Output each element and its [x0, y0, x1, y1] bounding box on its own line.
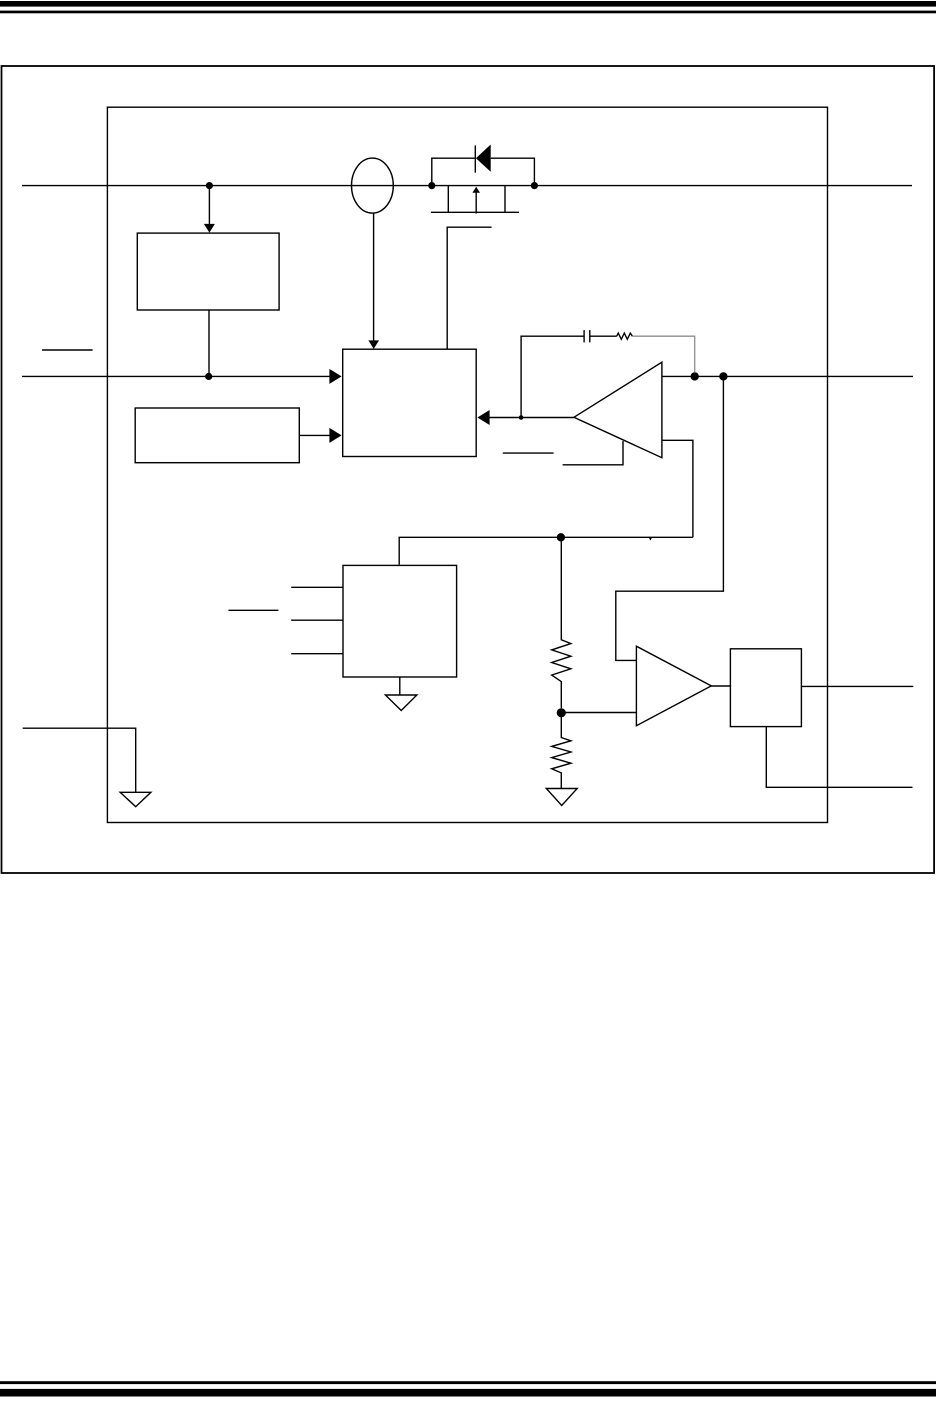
node FB junction 1 — [691, 372, 699, 380]
wire output pin 2 — [766, 727, 912, 788]
wire VIN bus — [22, 185, 912, 187]
label overbar 1 — [42, 349, 93, 351]
node VIN junction at UVLO tap — [206, 182, 213, 189]
node D1 cathode — [531, 182, 538, 189]
wire Q1 gate to PWM block — [447, 227, 491, 349]
label overbar 2 — [503, 452, 554, 454]
block B2 — [135, 408, 299, 463]
resistor R1 — [552, 537, 571, 708]
block B3 — [343, 565, 457, 677]
node divider top junction — [557, 533, 565, 541]
wire current source to PWM block — [373, 213, 375, 341]
wire block B2 into PWM block — [299, 434, 330, 436]
node FB junction 2 — [719, 372, 727, 380]
wire EN bus into PWM block — [22, 375, 330, 377]
wire block B1 to EN bus — [208, 310, 210, 376]
wire left ground pin — [23, 728, 136, 792]
wire R3 to FB node — [632, 336, 694, 372]
page top thick rule — [0, 1, 936, 7]
page bottom thick rule — [0, 1389, 936, 1397]
node divider mid junction — [557, 708, 566, 717]
wire stub tick on divider top line — [649, 538, 652, 541]
IC boundary inner rectangle — [107, 107, 827, 822]
wire FB to comparator input — [616, 376, 724, 660]
resistor R2 — [552, 713, 571, 789]
ground GND2 under R2 — [546, 789, 577, 806]
ground GND1 under B3 — [399, 677, 401, 695]
page top thin rule — [0, 11, 936, 14]
label overbar 3 — [228, 609, 278, 611]
page bottom thin rule — [0, 1381, 936, 1384]
pin stub B3 input 1 — [291, 586, 343, 588]
transistor Q1 gate plate — [431, 211, 519, 213]
block PWM U3 — [343, 349, 477, 456]
wire C1 to R3 — [590, 335, 617, 337]
figure outer border — [2, 66, 935, 873]
transistor Q1 drain stub — [504, 186, 506, 213]
wire FB line — [662, 375, 913, 377]
node EN junction — [205, 373, 212, 380]
wire output pin 1 — [801, 685, 913, 687]
wire U1 output into PWM block — [489, 417, 574, 419]
capacitor C1 — [583, 330, 585, 342]
current source CS1 ellipse — [352, 158, 394, 213]
diode D1 bar — [474, 145, 476, 172]
resistor R3 — [617, 333, 633, 339]
wire compensation riser — [521, 336, 583, 417]
block B4 driver — [730, 649, 801, 727]
diode D1 triangle — [476, 145, 491, 172]
ground GND3 — [120, 792, 151, 806]
wire U1 right edge to lower node — [662, 440, 693, 537]
wire diode left riser — [432, 158, 475, 185]
transistor Q1 source stub — [447, 186, 449, 213]
op-amp U1 error amplifier — [574, 362, 662, 458]
wire U2 output to driver — [711, 685, 730, 687]
pin stub B3 input 2 — [291, 619, 343, 621]
wire divider top node — [399, 537, 693, 564]
block B1 — [137, 233, 279, 310]
pin stub B3 input 3 — [291, 653, 343, 655]
node U1 output tap — [519, 415, 524, 420]
node D1 anode — [428, 182, 435, 189]
transistor Q1 bulk arrow — [475, 192, 477, 213]
wire divider to comparator — [561, 712, 636, 714]
wire U1 reference input — [563, 441, 623, 465]
wire VIN to block B1 — [208, 186, 210, 225]
comparator U2 — [636, 646, 711, 726]
wire diode right riser — [491, 158, 535, 185]
